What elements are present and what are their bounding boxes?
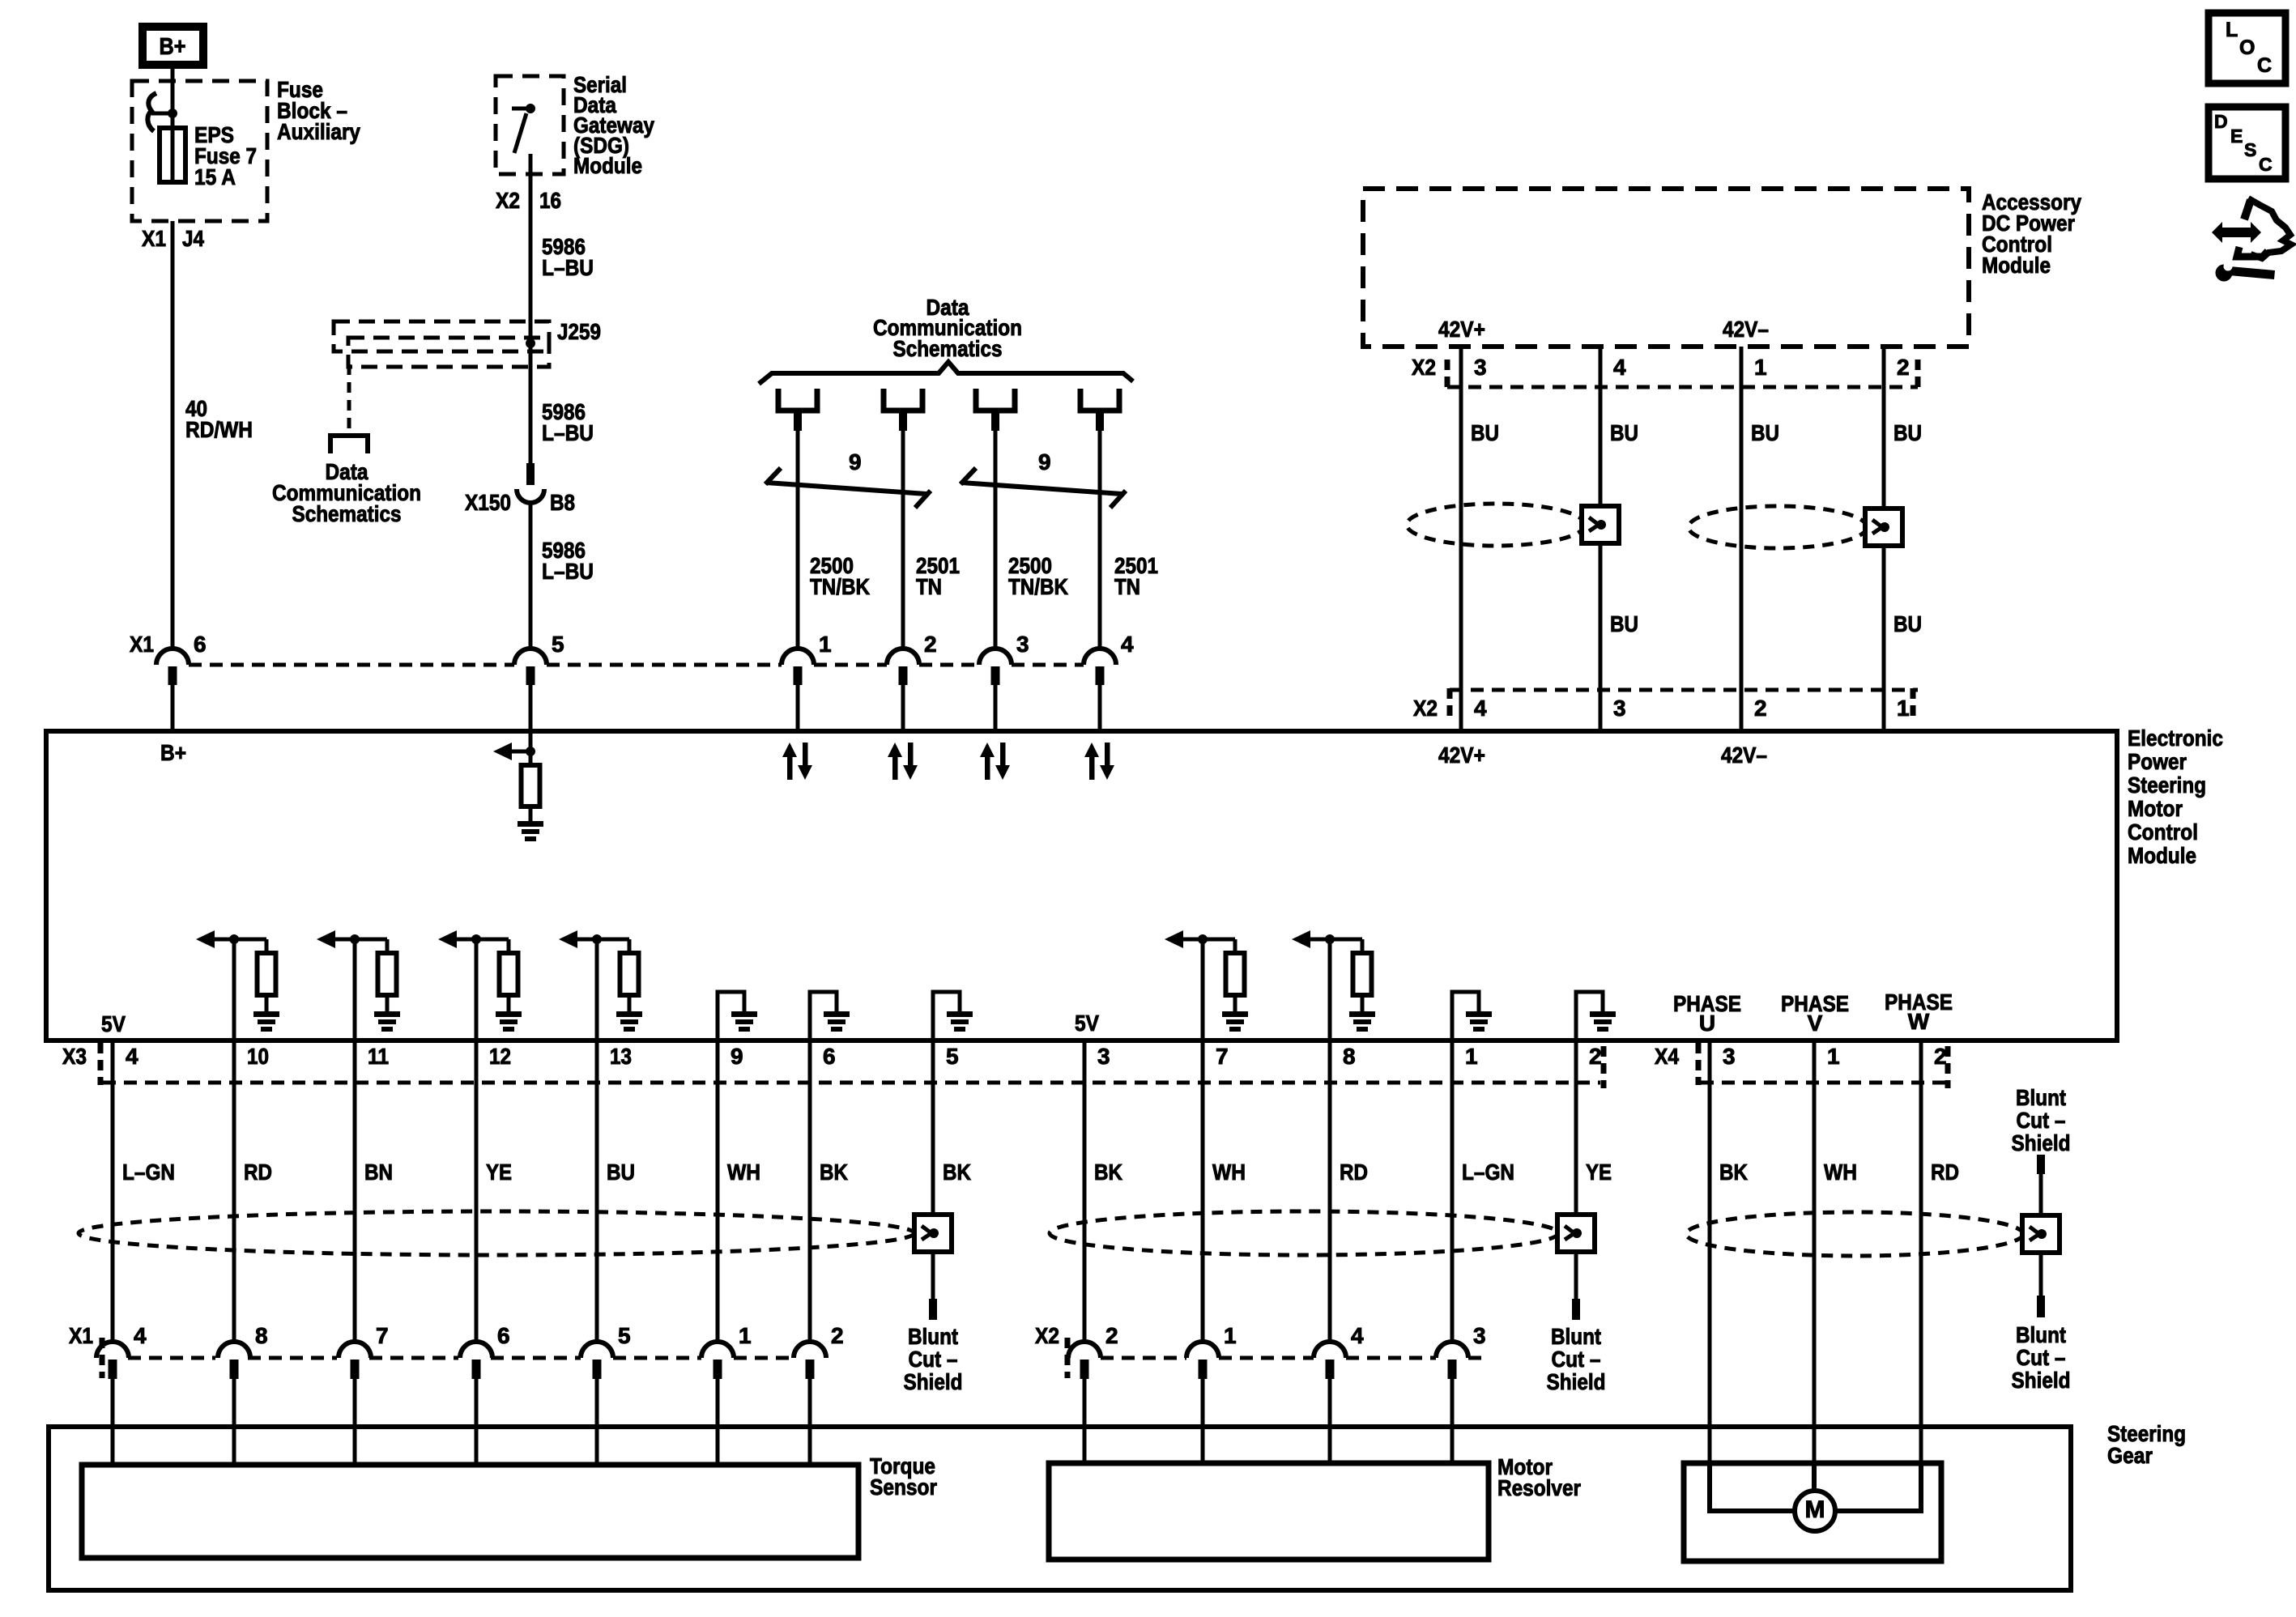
connector X1 sensor pin 5 bump [581,1342,613,1379]
wire shield square to blunt cut phases lower [2039,1253,2043,1296]
shield termination square 42V+ [1582,506,1619,543]
wire 40 RD/WH fuse to module pin X1-6 [171,221,175,649]
internal ground [616,1011,642,1032]
wire phase U inside motor box [1710,1463,1795,1511]
twisted shield ellipse motor phases [1686,1212,2023,1256]
connector X1 sensor pin 4 bump [96,1342,129,1379]
svg-text:1: 1 [1897,696,1910,721]
svg-text:5: 5 [618,1323,631,1348]
svg-text:Electronic: Electronic [2128,726,2223,751]
svg-text:BU: BU [1751,420,1779,445]
junction dot internal [592,934,602,944]
svg-text:2: 2 [1934,1044,1947,1069]
svg-text:RD/WH: RD/WH [185,417,253,442]
connector X1 pin 5 bump [514,649,547,685]
wire pin 3 into module [994,685,998,731]
svg-text:Blunt: Blunt [908,1324,958,1349]
svg-text:5: 5 [552,632,564,657]
serial data up/down arrows pin 3 [980,743,1010,780]
svg-text:13: 13 [610,1044,632,1069]
wire BU module to sensor connector [595,1040,599,1342]
svg-text:WH: WH [1212,1160,1246,1185]
label electronic power steering motor control module [2128,726,2223,868]
internal ground [947,1011,973,1032]
internal ground [824,1011,850,1032]
svg-text:16: 16 [539,188,561,213]
wire WH phase to motor [1813,1040,1817,1463]
junction dot internal [1325,934,1335,944]
off-page terminal 4 serial data [1080,389,1119,411]
svg-text:Shield: Shield [904,1369,963,1394]
svg-text:BU: BU [1610,420,1638,445]
svg-text:Module: Module [573,153,642,178]
wire YE module to sensor connector [475,1040,479,1342]
svg-text:X2: X2 [1413,696,1438,721]
svg-text:X1: X1 [130,632,154,657]
label connector X2 16 of SDG [496,188,561,213]
svg-text:X4: X4 [1655,1044,1679,1069]
tick X3 left [98,1043,104,1085]
connector X1 pin 2 bump [887,649,919,685]
svg-text:B+: B+ [160,740,186,765]
label torque sensor [870,1453,937,1500]
wire phase W inside motor box [1835,1463,1921,1511]
tick X1 sensor left [100,1338,105,1378]
svg-text:4: 4 [126,1044,138,1069]
internal resistor [1353,953,1372,995]
svg-text:5: 5 [946,1044,959,1069]
wire blunt cut to shield square phases [2039,1174,2043,1215]
label wire 2500 TN/BK second [1008,553,1068,599]
wire BU 42V+ B lower [1599,543,1603,731]
svg-text:Steering: Steering [2128,772,2206,798]
svg-text:5V: 5V [101,1011,126,1036]
svg-text:BU: BU [607,1160,635,1185]
Electronic Power Steering Motor Control Module box [46,731,2117,1040]
svg-text:L–GN: L–GN [1462,1160,1514,1185]
connector X1 pin 1 bump [782,649,814,685]
battery terminal B+ box [143,27,203,65]
wire pin 5 into module [529,685,533,731]
Accessory DC Power Control Module dashed box [1363,189,1969,347]
wire pin 4 into module [1098,685,1102,731]
svg-text:Schematics: Schematics [893,336,1003,361]
inline connector X150 B8 [517,463,544,503]
svg-text:Cut –: Cut – [1552,1347,1601,1372]
svg-text:3: 3 [1097,1044,1110,1069]
svg-text:O: O [2239,36,2255,59]
svg-text:2: 2 [1754,696,1767,721]
wire BU 42V- B lower [1882,546,1886,731]
svg-text:BU: BU [1893,611,1922,636]
svg-text:2: 2 [831,1323,844,1348]
svg-text:4: 4 [1474,696,1487,721]
off-page terminal 1 serial data [778,389,817,411]
svg-text:3: 3 [1723,1044,1736,1069]
internal resistor [500,953,518,995]
tick X2 module right [1910,688,1916,719]
wire X1 pin 6 to torque sensor [475,1379,479,1465]
svg-text:1: 1 [1224,1323,1237,1348]
svg-text:BK: BK [820,1160,848,1185]
label motor resolver [1497,1454,1581,1500]
svg-text:7: 7 [376,1323,389,1348]
svg-text:12: 12 [489,1044,511,1069]
svg-text:3: 3 [1474,355,1487,380]
svg-text:D: D [2214,111,2228,132]
shield square motor resolver [1557,1215,1595,1252]
internal wire pin x=1642 [1328,939,1332,1040]
twisted pair ellipse 42V- [1689,506,1867,548]
wire BN module to sensor connector [353,1040,357,1342]
tick X2 resolver left [1065,1338,1071,1378]
label PHASE W [1885,989,1953,1034]
svg-text:4: 4 [1351,1323,1364,1348]
svg-text:42V+: 42V+ [1438,317,1485,342]
svg-text:RD: RD [1931,1160,1959,1185]
off-page terminal 2 serial data [884,389,922,411]
junction dot internal [471,934,481,944]
wire L–GN module to sensor connector [111,1040,115,1342]
svg-text:Cut –: Cut – [909,1347,958,1372]
wire serial data 1 to module pin 1 [794,413,802,431]
label fuse value [194,122,257,189]
wire X1 pin 2 to torque sensor [808,1379,812,1465]
svg-text:TN: TN [916,574,942,599]
internal resistor [378,953,397,995]
ground B+ net [518,821,543,841]
connector X1 sensor pin 6 bump [460,1342,492,1379]
internal wire pin x=289 [232,939,236,1040]
serial data up/down arrows pin 4 [1084,743,1114,780]
svg-text:L–BU: L–BU [542,559,594,584]
svg-text:2: 2 [1897,355,1910,380]
blunt cut stub torque [929,1299,937,1320]
internal wire pin x=1485 [1201,939,1205,1040]
svg-text:42V–: 42V– [1721,743,1767,768]
label wire 5986 L-BU lower [542,538,594,584]
svg-text:2: 2 [1105,1323,1118,1348]
wire resistor to ground [386,995,390,1011]
svg-text:Control: Control [2128,819,2198,845]
splice J259 dashed boxes [334,321,549,367]
svg-text:Sensor: Sensor [870,1474,937,1500]
svg-text:3: 3 [1473,1323,1486,1348]
svg-text:Shield: Shield [2012,1130,2071,1155]
wire BU 42V- B upper [1882,347,1886,509]
svg-text:Shield: Shield [1547,1369,1606,1394]
label wire 2501 TN first [916,553,960,599]
svg-text:6: 6 [194,632,207,657]
connector X1 pin 3 bump [979,649,1012,685]
fuse block dashed outline Fuse Block - Auxiliary [132,81,267,221]
internal resistor [1226,953,1245,995]
internal wire pin x=737 [595,939,599,1040]
junction dot internal [1198,934,1208,944]
svg-text:TN/BK: TN/BK [1008,574,1068,599]
connector X2 resolver pin 4 bump [1314,1342,1346,1379]
internal arrow with pull-up [559,930,629,953]
connector X1 sensor pin 8 bump [218,1342,250,1379]
svg-text:WH: WH [1824,1160,1857,1185]
svg-text:8: 8 [1343,1044,1356,1069]
svg-text:42V–: 42V– [1723,317,1769,342]
wire RD phase to motor [1919,1040,1923,1463]
wire clip to fuse [171,113,175,128]
label fuse block name [277,77,360,144]
svg-text:4: 4 [1613,355,1626,380]
internal ground [1222,1011,1248,1032]
connector row X1 sensor dashed line [128,1356,794,1360]
wire L–GN module to sensor connector [1450,1040,1455,1342]
wire X2 pin 1 to motor resolver [1201,1379,1205,1463]
internal ground [1590,1011,1616,1032]
svg-text:Blunt: Blunt [2016,1322,2066,1347]
internal resistor B+ net [522,765,540,806]
svg-text:1: 1 [1827,1044,1840,1069]
svg-text:BK: BK [943,1160,971,1185]
wire shield square to blunt cut resolver [1574,1252,1578,1299]
internal arrow B+ net [493,743,530,760]
connector strip X2 accessory dashed line [1447,385,1918,389]
label SDG module [573,72,654,178]
svg-text:1: 1 [739,1323,752,1348]
blunt cut stub phases lower [2037,1296,2045,1317]
svg-text:BU: BU [1471,420,1499,445]
svg-text:4: 4 [1121,632,1134,657]
wire resistor to ground [507,995,511,1011]
twisted pair ellipse 42V+ [1407,504,1585,546]
tick X2 accessory left [1445,360,1450,389]
internal arrow with pull-up [1292,930,1362,953]
connector strip X2 module dashed line [1450,688,1918,692]
fuse EPS Fuse 7 15 A element [160,128,185,182]
wire pin 6 into module [171,685,175,731]
svg-text:1: 1 [1465,1044,1478,1069]
tick X2 accessory right [1915,360,1921,389]
wire BK shield drain torque sensor upper [931,1040,935,1215]
internal ground [731,1011,757,1032]
shield square motor phases [2022,1215,2060,1253]
wire resistor to ground [265,995,269,1011]
wire BU 42V+ A [1459,347,1463,731]
svg-text:6: 6 [823,1044,836,1069]
svg-text:YE: YE [486,1160,512,1185]
shield termination square 42V- [1865,509,1902,546]
wire X2 pin 2 to motor resolver [1083,1379,1087,1463]
svg-text:9: 9 [849,449,862,474]
DESC icon box [2209,107,2285,179]
svg-text:L: L [2226,19,2238,41]
svg-text:Cut –: Cut – [2017,1345,2066,1370]
wire 5986 L-BU X150 to module pin X1-5 [529,502,533,649]
svg-text:9: 9 [731,1044,743,1069]
connector strip X4 dashed line [1701,1081,1950,1085]
internal ground [1349,1011,1375,1032]
serial data up/down arrows pin 2 [888,743,918,780]
label data communication schematics left [272,459,421,526]
connector X2 resolver pin 1 bump [1186,1342,1219,1379]
wire BK module to sensor connector [1083,1040,1087,1342]
wire pin 1 into module [796,685,800,731]
internal ground wire pin x=1000 [810,992,837,1040]
connector row X2 resolver dashed line [1101,1356,1484,1360]
internal ground wire pin x=1946 [1576,992,1603,1040]
svg-text:Blunt: Blunt [2016,1085,2066,1110]
connector X1 sensor pin 1 bump [701,1342,734,1379]
svg-text:1: 1 [1754,355,1767,380]
svg-text:Module: Module [2128,843,2196,868]
internal ground wire pin x=1793 [1452,992,1479,1040]
svg-text:W: W [1908,1009,1930,1034]
wire 5986 L-BU SDG to splice J259 [529,154,533,343]
internal arrow with pull-up [1165,930,1235,953]
svg-text:BU: BU [1893,420,1922,445]
label wire 2500 TN/BK first [810,553,870,599]
wire phase V inside motor box [1812,1463,1817,1491]
motor M symbol [1795,1491,1835,1531]
svg-text:4: 4 [134,1323,147,1348]
junction dot internal [229,934,239,944]
label wire 2501 TN second [1114,553,1158,599]
label steering gear [2107,1421,2186,1468]
svg-text:9: 9 [1038,449,1051,474]
svg-text:Auxiliary: Auxiliary [277,119,360,144]
svg-text:TN: TN [1114,574,1140,599]
brace under data communication schematics [759,362,1133,384]
svg-text:E: E [2230,126,2243,147]
internal ground [1466,1011,1492,1032]
svg-text:3: 3 [1016,632,1029,657]
junction dot B+ net [526,747,535,756]
svg-text:BN: BN [364,1160,393,1185]
cable marker 9 conductors left [765,468,931,508]
wire resistor to ground [628,995,632,1011]
connector X2 resolver pin 3 bump [1436,1342,1468,1379]
internal resistor [620,953,639,995]
label PHASE V [1781,991,1849,1036]
internal ground wire pin x=886 [718,992,744,1040]
internal arrow with pull-up [317,930,387,953]
wire serial data 4 to module pin 4 [1096,413,1104,431]
label blunt cut shield phases lower [2012,1322,2071,1393]
tick X4 right [1945,1046,1951,1088]
wire BK phase to motor [1708,1040,1712,1463]
service information hand and wrench icon [2212,198,2291,282]
wire X1 pin 7 to torque sensor [353,1379,357,1465]
svg-text:BK: BK [1094,1160,1122,1185]
internal ground [253,1011,279,1032]
wire shield square to blunt cut torque [931,1252,935,1299]
svg-text:Module: Module [1982,253,2051,278]
connector row X1 dashed line [189,663,1084,667]
connector X1 sensor pin 2 bump [794,1342,826,1379]
svg-text:X2: X2 [1035,1323,1059,1348]
svg-text:Schematics: Schematics [292,501,402,526]
wire X1 pin 8 to torque sensor [232,1379,236,1465]
svg-text:7: 7 [1216,1044,1229,1069]
svg-text:X1: X1 [142,226,166,251]
internal wire pin x=438 [353,939,357,1040]
label blunt cut shield torque [904,1324,963,1394]
svg-text:U: U [1699,1011,1715,1036]
svg-text:Blunt: Blunt [1551,1324,1601,1349]
wire serial data 3 to module pin 3 [991,413,999,431]
connector X2 resolver pin 2 bump [1068,1342,1101,1379]
svg-text:2: 2 [924,632,937,657]
internal wire pin x=588 [475,939,479,1040]
label wire 40 RD/WH [185,396,253,442]
label accessory dc power control module [1982,189,2081,278]
svg-text:1: 1 [819,632,832,657]
svg-text:2: 2 [1589,1044,1602,1069]
wire BU 42V+ B upper [1599,347,1603,506]
internal circuit B+ sense: wire [529,731,533,765]
svg-text:X2: X2 [496,188,520,213]
internal ground [374,1011,400,1032]
Steering Gear box [49,1427,2071,1590]
wire X1 pin 5 to torque sensor [595,1379,599,1465]
tick X4 left [1696,1043,1702,1085]
svg-text:B+: B+ [160,34,186,60]
svg-text:Shield: Shield [2012,1368,2071,1393]
svg-text:X3: X3 [62,1044,87,1069]
svg-text:10: 10 [247,1044,269,1069]
serial data up/down arrows pin 1 [782,743,812,780]
svg-text:J4: J4 [182,226,204,251]
connector X1 pin 4 bump [1084,649,1116,685]
junction dot at fuse input [168,109,177,118]
svg-text:WH: WH [727,1160,760,1185]
svg-text:RD: RD [1340,1160,1368,1185]
svg-text:BK: BK [1719,1160,1748,1185]
connector X1 sensor pin 7 bump [339,1342,371,1379]
junction dot J259 [526,338,535,348]
wire B+ to fuse block [171,69,175,113]
svg-text:L–BU: L–BU [542,420,594,445]
svg-text:X2: X2 [1412,355,1436,380]
SDG switch contact [512,109,529,153]
tick X3 right [1601,1046,1607,1088]
blunt cut stub resolver [1572,1299,1580,1320]
label blunt cut shield resolver [1547,1324,1606,1394]
svg-text:L–BU: L–BU [542,255,594,280]
internal ground [496,1011,522,1032]
wire pin 2 into module [901,685,905,731]
Torque Sensor box [82,1465,858,1558]
LOC icon box [2209,13,2285,83]
dashed stub to data communication schematics [347,364,351,432]
connector X1 pin 6 bump [156,649,189,685]
twisted shield ellipse motor resolver [1050,1211,1558,1255]
label wire 5986 L-BU middle [542,399,594,445]
svg-text:B8: B8 [550,490,575,515]
svg-text:8: 8 [255,1323,268,1348]
svg-text:L–GN: L–GN [122,1160,175,1185]
svg-text:42V+: 42V+ [1438,743,1485,768]
cable marker 9 conductors right [961,468,1126,508]
bracket to data communication schematics [330,436,368,453]
wire X1 pin 4 to torque sensor [111,1379,115,1465]
shield square torque sensor [914,1215,952,1252]
fuse clip symbol [147,93,173,131]
svg-text:C: C [2257,54,2272,77]
tick X2 module left [1447,688,1453,719]
wire 5986 L-BU J259 to X150 [529,343,533,463]
wire RD module to sensor connector [1328,1040,1332,1342]
svg-text:11: 11 [368,1044,389,1069]
wire X1 pin 1 to torque sensor [716,1379,720,1465]
